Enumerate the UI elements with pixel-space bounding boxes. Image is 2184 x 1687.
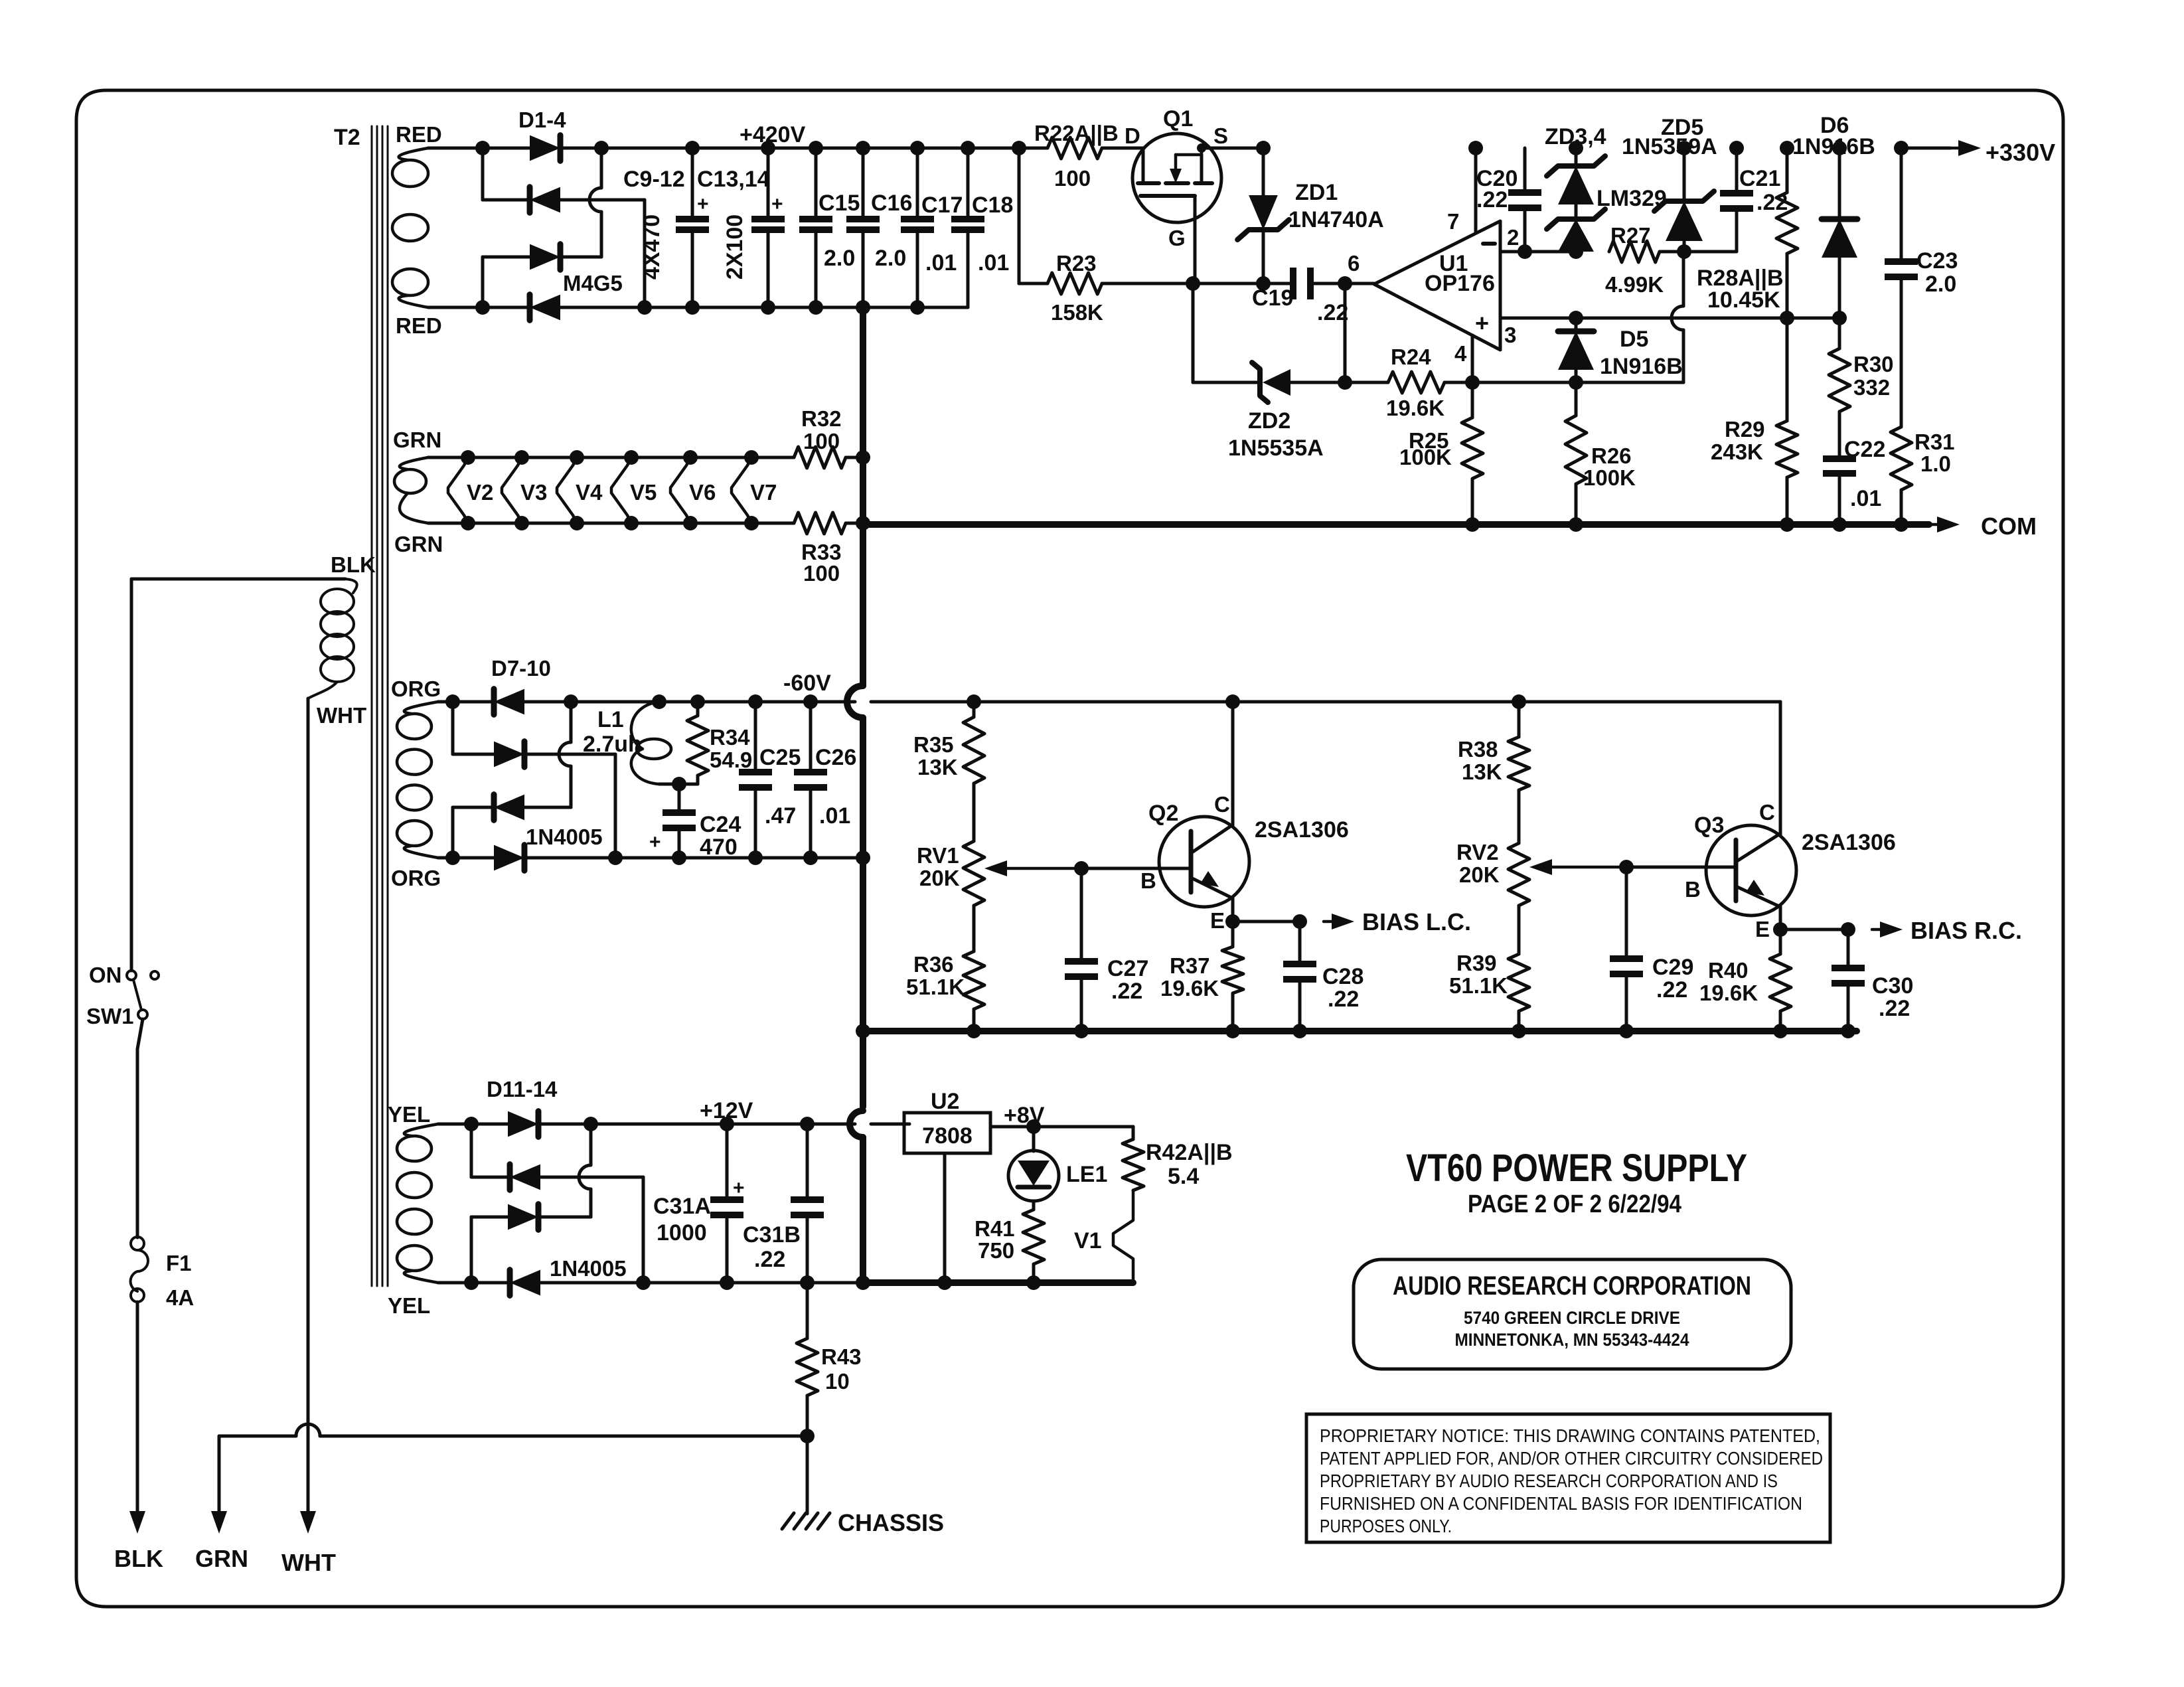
svg-text:R29: R29 bbox=[1725, 417, 1765, 442]
svg-text:C25: C25 bbox=[759, 745, 801, 770]
node junction bbox=[1569, 311, 1583, 325]
op-amp U1 OP176 bbox=[1374, 209, 1519, 366]
svg-text:+: + bbox=[697, 193, 709, 215]
label pin 6 bbox=[1348, 251, 1360, 276]
wire U1 pin7 to rail bbox=[1474, 148, 1478, 233]
node junction bbox=[748, 694, 763, 709]
wire -60V bottom rail bbox=[524, 856, 863, 860]
wire ORG top lead bbox=[438, 700, 453, 704]
wire +12V ground rail thick bbox=[856, 1275, 1133, 1290]
label 1N4005 bbox=[550, 1256, 627, 1281]
capacitor C28 .22 bbox=[1283, 922, 1364, 1038]
svg-text:.22: .22 bbox=[1111, 979, 1142, 1004]
svg-text:3: 3 bbox=[1504, 323, 1516, 347]
wire -60V rail bbox=[571, 700, 974, 704]
svg-text:C: C bbox=[1759, 800, 1775, 825]
capacitor C24 470 bbox=[649, 784, 741, 865]
resistor R31 1.0 bbox=[1891, 427, 1955, 532]
resistor R23 158K bbox=[1019, 251, 1193, 325]
node junction bbox=[475, 141, 490, 155]
svg-text:C15: C15 bbox=[819, 191, 860, 216]
node junction bbox=[1225, 914, 1240, 929]
svg-text:BIAS R.C.: BIAS R.C. bbox=[1911, 917, 2022, 944]
capacitor C25 .47 bbox=[739, 702, 801, 865]
wire AC2 to D3 bbox=[483, 256, 530, 259]
label GRN bottom bbox=[394, 532, 443, 556]
capacitor C9-12 4X470 bbox=[623, 148, 709, 315]
heater V2 bbox=[448, 450, 522, 530]
net WHT bbox=[281, 1511, 336, 1576]
svg-text:2.0: 2.0 bbox=[824, 246, 855, 271]
diode D14 bbox=[471, 1270, 540, 1296]
wire COM bottom rail bbox=[645, 306, 968, 309]
svg-text:1N4005: 1N4005 bbox=[550, 1256, 627, 1281]
svg-text:BIAS L.C.: BIAS L.C. bbox=[1362, 908, 1471, 935]
diode D7 bbox=[453, 689, 524, 715]
svg-text:GRN: GRN bbox=[393, 428, 441, 452]
svg-text:R24: R24 bbox=[1391, 345, 1431, 369]
node junction bbox=[1074, 861, 1089, 876]
wire ZD2 to pin6 bbox=[1344, 283, 1347, 382]
svg-text:FURNISHED ON A CONFIDENTAL BAS: FURNISHED ON A CONFIDENTAL BASIS FOR IDE… bbox=[1320, 1493, 1802, 1514]
node junction bbox=[1186, 276, 1200, 291]
svg-text:C9-12: C9-12 bbox=[623, 167, 685, 192]
svg-text:WHT: WHT bbox=[281, 1549, 336, 1576]
svg-text:158K: 158K bbox=[1051, 300, 1103, 325]
resistor R40 19.6K bbox=[1699, 929, 1791, 1038]
node junction bbox=[445, 850, 460, 865]
svg-text:13K: 13K bbox=[1462, 760, 1502, 784]
transformer T2 core bbox=[334, 125, 388, 1286]
resistor R36 51.1K bbox=[906, 906, 984, 1038]
svg-text:1N916B: 1N916B bbox=[1600, 354, 1683, 379]
label RED bottom bbox=[396, 313, 442, 338]
resistor R25 100K bbox=[1399, 382, 1483, 532]
svg-text:2: 2 bbox=[1507, 225, 1519, 250]
wire bias node row bbox=[1472, 381, 1576, 384]
svg-text:51.1K: 51.1K bbox=[1449, 973, 1508, 998]
svg-text:1N5359A: 1N5359A bbox=[1622, 134, 1717, 159]
capacitor C29 .22 bbox=[1610, 867, 1693, 1038]
svg-text:13K: 13K bbox=[917, 755, 958, 779]
svg-text:ON: ON bbox=[89, 963, 122, 987]
svg-text:OP176: OP176 bbox=[1425, 271, 1495, 296]
proprietary notice box bbox=[1306, 1414, 1830, 1542]
label GRN top bbox=[393, 428, 441, 452]
subtitle PAGE 2 OF 2 6/22/94 bbox=[1468, 1190, 1681, 1218]
wire D2 anode bbox=[560, 199, 645, 202]
svg-text:WHT: WHT bbox=[317, 703, 366, 728]
svg-text:PROPRIETARY NOTICE: THIS DRA: PROPRIETARY NOTICE: THIS DRAWING CONTAIN… bbox=[1320, 1425, 1820, 1446]
net BLK bbox=[114, 1511, 163, 1572]
svg-text:2SA1306: 2SA1306 bbox=[1802, 830, 1896, 855]
svg-text:V5: V5 bbox=[630, 480, 657, 505]
wire -60V rail right bbox=[974, 700, 1780, 704]
node junction bbox=[856, 141, 870, 155]
node junction bbox=[1569, 141, 1583, 155]
node junction bbox=[967, 694, 981, 709]
label WHT top bbox=[317, 703, 366, 728]
wire bus hop at +12V rail bbox=[850, 1111, 863, 1137]
svg-text:R32: R32 bbox=[801, 406, 842, 431]
node junction bbox=[800, 1117, 815, 1131]
svg-text:V7: V7 bbox=[750, 480, 777, 505]
capacitor C15 2.0 bbox=[799, 148, 860, 315]
heater V7 bbox=[732, 450, 777, 530]
node junction bbox=[464, 1117, 479, 1131]
capacitor C20 .22 bbox=[1476, 148, 1541, 252]
svg-text:2.7uh: 2.7uh bbox=[583, 732, 642, 757]
capacitor C16 2.0 bbox=[846, 148, 912, 315]
diode D12 bbox=[510, 1165, 540, 1190]
svg-text:F1: F1 bbox=[166, 1251, 192, 1275]
label ORG top bbox=[391, 677, 441, 701]
svg-text:GRN: GRN bbox=[195, 1545, 248, 1572]
node junction bbox=[800, 1429, 815, 1443]
svg-text:5740 GREEN CIRCLE DRIVE: 5740 GREEN CIRCLE DRIVE bbox=[1464, 1308, 1680, 1328]
wire AC2 riser bbox=[451, 807, 455, 858]
svg-text:R30: R30 bbox=[1853, 352, 1894, 376]
label YEL top bbox=[388, 1102, 430, 1127]
node junction bbox=[475, 300, 490, 315]
capacitor C31B .22 bbox=[743, 1124, 824, 1290]
svg-text:V2: V2 bbox=[467, 480, 493, 505]
node junction bbox=[1677, 244, 1691, 259]
wire AC2 riser bbox=[481, 257, 485, 307]
svg-text:T2: T2 bbox=[334, 125, 360, 150]
diode D13 bbox=[508, 1204, 538, 1230]
svg-text:R42A||B: R42A||B bbox=[1146, 1140, 1233, 1165]
svg-text:C30: C30 bbox=[1872, 973, 1913, 999]
svg-text:.22: .22 bbox=[1879, 996, 1910, 1021]
svg-text:G: G bbox=[1168, 226, 1186, 250]
resistor R39 51.1K bbox=[1449, 906, 1529, 1038]
resistor R34 54.9 bbox=[687, 702, 752, 784]
node junction bbox=[1225, 694, 1240, 709]
node junction bbox=[464, 1275, 479, 1290]
svg-text:4.99K: 4.99K bbox=[1605, 272, 1664, 297]
node junction bbox=[564, 694, 578, 709]
wire bus hop at -60V rail bbox=[847, 686, 863, 718]
svg-text:54.9: 54.9 bbox=[710, 748, 752, 772]
svg-text:20K: 20K bbox=[919, 866, 960, 890]
wire ORG bottom lead bbox=[438, 856, 453, 860]
svg-text:.22: .22 bbox=[1476, 187, 1508, 212]
wire AC2 to D9 bbox=[453, 806, 494, 809]
svg-text:R23: R23 bbox=[1056, 251, 1097, 276]
svg-text:PAGE 2 OF 2 6/22/94: PAGE 2 OF 2 6/22/94 bbox=[1468, 1190, 1681, 1218]
transformer T2 secondary winding GRN bbox=[394, 457, 428, 523]
label 1N4005 bbox=[526, 825, 603, 849]
svg-text:.22: .22 bbox=[754, 1247, 785, 1272]
wire gate node drop bbox=[1192, 283, 1195, 382]
capacitor C17 .01 bbox=[901, 148, 963, 315]
wire chassis row bbox=[219, 1424, 807, 1436]
node junction bbox=[1832, 311, 1847, 325]
potentiometer RV2 20K bbox=[1456, 790, 1626, 906]
svg-text:R22A||B: R22A||B bbox=[1034, 121, 1119, 145]
svg-text:ORG: ORG bbox=[391, 866, 441, 890]
node junction bbox=[1569, 375, 1583, 390]
net GRN bbox=[195, 1511, 248, 1572]
node junction bbox=[445, 694, 460, 709]
svg-text:51.1K: 51.1K bbox=[906, 975, 965, 999]
wire D3 cathode bbox=[560, 256, 601, 259]
diode D11 bbox=[471, 1111, 538, 1137]
wire AC1 to D12 bbox=[471, 1176, 510, 1179]
svg-text:+330V: +330V bbox=[1986, 139, 2055, 166]
capacitor C13,14 2X100 bbox=[697, 148, 785, 315]
node junction bbox=[608, 850, 623, 865]
zener diode ZD3 LM329 bbox=[1547, 148, 1605, 204]
svg-text:YEL: YEL bbox=[388, 1293, 430, 1318]
svg-text:CHASSIS: CHASSIS bbox=[838, 1509, 944, 1536]
node junction bbox=[1338, 375, 1352, 390]
capacitor C30 .22 bbox=[1832, 929, 1913, 1038]
svg-text:LE1: LE1 bbox=[1066, 1162, 1107, 1187]
node junction bbox=[1619, 860, 1634, 874]
svg-text:1N5535A: 1N5535A bbox=[1228, 436, 1324, 461]
wire +12V bottom rail bbox=[540, 1281, 863, 1285]
wire Q3 emitter bbox=[1773, 906, 1788, 937]
wire F1 to BLK arrow bbox=[136, 1302, 139, 1511]
svg-text:U2: U2 bbox=[931, 1089, 959, 1114]
svg-text:R27: R27 bbox=[1610, 223, 1651, 248]
wire COM rail bbox=[863, 521, 1929, 528]
svg-text:19.6K: 19.6K bbox=[1699, 981, 1758, 1005]
wire D9 anode bbox=[524, 806, 571, 809]
wire AC2 to D13 bbox=[471, 1216, 508, 1219]
svg-text:R36: R36 bbox=[913, 952, 954, 977]
svg-text:2X100: 2X100 bbox=[722, 214, 747, 280]
svg-text:.47: .47 bbox=[765, 803, 796, 829]
diode D8 bbox=[494, 742, 524, 767]
resistor R33 100 bbox=[751, 513, 870, 586]
svg-text:1N4740A: 1N4740A bbox=[1288, 207, 1384, 232]
svg-text:D1-4: D1-4 bbox=[518, 108, 566, 132]
label YEL bottom bbox=[388, 1293, 430, 1318]
transformer T2 primary winding BLK-WHT bbox=[308, 579, 357, 698]
node junction bbox=[1338, 276, 1352, 291]
wire +420V rail bbox=[601, 147, 1019, 150]
resistor R27 4.99K bbox=[1605, 223, 1684, 297]
diode D1 bbox=[483, 135, 560, 161]
node junction bbox=[761, 141, 775, 155]
resistor R38 13K bbox=[1458, 702, 1529, 790]
transistor Q2 2SA1306 bbox=[1140, 792, 1349, 933]
svg-text:RED: RED bbox=[396, 122, 442, 147]
node junction bbox=[1026, 1119, 1041, 1134]
svg-text:+: + bbox=[649, 831, 661, 853]
fuse F1 4A bbox=[131, 1237, 195, 1310]
svg-text:V4: V4 bbox=[576, 480, 603, 505]
svg-text:C31B: C31B bbox=[743, 1222, 801, 1247]
net BIAS R.C. bbox=[1872, 917, 2022, 944]
node junction bbox=[961, 141, 975, 155]
heater V3 bbox=[502, 450, 577, 530]
svg-text:VT60 POWER SUPPLY: VT60 POWER SUPPLY bbox=[1406, 1147, 1747, 1190]
svg-text:R40: R40 bbox=[1708, 958, 1749, 983]
svg-text:COM: COM bbox=[1981, 513, 2037, 540]
switch SW1 bbox=[86, 971, 159, 1028]
svg-text:1N4005: 1N4005 bbox=[526, 825, 603, 849]
resistor R26 100K bbox=[1565, 382, 1636, 532]
node junction bbox=[910, 141, 925, 155]
capacitor C27 .22 bbox=[1065, 868, 1148, 1038]
wire U1 pin2 bbox=[1500, 250, 1576, 254]
wire AC1 drop bbox=[470, 1124, 473, 1177]
svg-text:C: C bbox=[1214, 792, 1230, 817]
inductor L1 2.7uh bbox=[583, 702, 671, 784]
capacitor C18 .01 bbox=[951, 148, 1013, 307]
wire D7 anode to rail bbox=[524, 700, 571, 704]
wire R23 left riser bbox=[1018, 148, 1021, 283]
node junction bbox=[1012, 141, 1026, 155]
wire Q1 gate lead bbox=[1194, 196, 1197, 283]
node junction bbox=[1465, 375, 1480, 390]
wire RV1 wiper to Q2 base bbox=[1081, 867, 1191, 870]
wire AC1 to D8 bbox=[453, 753, 494, 756]
wire +12V rail bbox=[591, 1123, 909, 1126]
wire D11 cathode to rail bbox=[538, 1123, 591, 1126]
node junction bbox=[1841, 922, 1855, 937]
node junction bbox=[1292, 914, 1307, 929]
svg-text:C27: C27 bbox=[1107, 956, 1148, 981]
node junction bbox=[584, 1117, 598, 1131]
voltage regulator U2 7808 bbox=[904, 1089, 990, 1153]
svg-text:C28: C28 bbox=[1322, 964, 1364, 989]
svg-text:10: 10 bbox=[825, 1369, 850, 1394]
wire RV2 wiper to Q3 base bbox=[1626, 866, 1736, 869]
transistor Q3 2SA1306 bbox=[1685, 800, 1896, 941]
wire SW1 to F1 bbox=[137, 1019, 143, 1238]
label BLK top bbox=[331, 552, 376, 577]
resistor R41 750 bbox=[975, 1210, 1044, 1290]
diode D9 bbox=[494, 795, 524, 821]
wire D8 cathode bbox=[524, 753, 615, 756]
svg-text:+: + bbox=[771, 193, 783, 215]
svg-text:.01: .01 bbox=[1850, 486, 1881, 511]
svg-text:S: S bbox=[1213, 123, 1228, 148]
svg-text:R43: R43 bbox=[821, 1344, 862, 1369]
svg-text:1000: 1000 bbox=[657, 1220, 707, 1245]
wire D9 anode riser bbox=[559, 702, 571, 807]
potentiometer RV1 20K bbox=[917, 783, 1081, 906]
svg-text:19.6K: 19.6K bbox=[1386, 396, 1444, 420]
heater V6 bbox=[670, 450, 751, 530]
svg-text:4X470: 4X470 bbox=[639, 214, 664, 280]
svg-text:7: 7 bbox=[1447, 209, 1459, 234]
svg-text:YEL: YEL bbox=[388, 1102, 430, 1127]
transistor Q1 MOSFET bbox=[1132, 106, 1221, 250]
svg-text:100K: 100K bbox=[1583, 465, 1636, 490]
resistor R43 10 bbox=[797, 1283, 862, 1436]
node junction bbox=[1518, 244, 1532, 259]
svg-text:L1: L1 bbox=[597, 707, 624, 732]
svg-text:10.45K: 10.45K bbox=[1707, 287, 1780, 313]
resistor R28A||B 10.45K bbox=[1697, 141, 1798, 318]
svg-text:.01: .01 bbox=[978, 250, 1009, 276]
svg-text:RV1: RV1 bbox=[917, 843, 959, 868]
capacitor C31A 1000 bbox=[653, 1124, 745, 1290]
LED LE1 bbox=[1008, 1127, 1107, 1210]
diode D3 bbox=[530, 244, 560, 270]
svg-text:C26: C26 bbox=[815, 745, 856, 770]
svg-text:R38: R38 bbox=[1458, 737, 1498, 762]
resistor R24 19.6K bbox=[1345, 345, 1472, 420]
wire D3 cathode riser bbox=[589, 148, 601, 257]
capacitor C19 .22 bbox=[1193, 268, 1374, 325]
transformer T2 secondary winding ORG bbox=[397, 702, 438, 858]
wire R22 to Q1 drain bbox=[1102, 147, 1143, 150]
wire WHT drop bbox=[307, 698, 310, 1511]
wire U2 ground bbox=[937, 1153, 952, 1290]
capacitor C21 .22 bbox=[1684, 141, 1788, 252]
transformer T2 secondary winding YEL bbox=[397, 1124, 438, 1283]
node junction bbox=[1512, 694, 1526, 709]
wire emitter row bbox=[1233, 920, 1300, 924]
resistor R30 332 bbox=[1829, 318, 1894, 459]
resistor R22A||B 100 bbox=[1019, 121, 1119, 191]
zener diode ZD2 1N5535A bbox=[1193, 362, 1345, 461]
node junction bbox=[1468, 141, 1483, 155]
svg-text:ZD2: ZD2 bbox=[1248, 408, 1290, 434]
svg-text:5.4: 5.4 bbox=[1168, 1164, 1199, 1189]
svg-text:C17: C17 bbox=[921, 193, 963, 218]
svg-text:E: E bbox=[1210, 908, 1225, 933]
svg-text:C19: C19 bbox=[1252, 285, 1293, 311]
svg-text:4: 4 bbox=[1454, 341, 1467, 366]
wire D12 anode bbox=[540, 1176, 643, 1179]
node junction bbox=[720, 1117, 734, 1131]
svg-text:Q1: Q1 bbox=[1163, 106, 1193, 131]
node junction bbox=[803, 694, 818, 709]
svg-text:C18: C18 bbox=[972, 193, 1013, 218]
svg-text:V3: V3 bbox=[520, 480, 547, 505]
svg-text:4A: 4A bbox=[166, 1285, 194, 1310]
wire D1 cathode to rail bbox=[560, 147, 601, 150]
svg-text:1N916B: 1N916B bbox=[1792, 134, 1875, 159]
svg-text:332: 332 bbox=[1853, 375, 1890, 400]
wire YEL top lead bbox=[438, 1123, 471, 1126]
wire D2 anode drop bbox=[643, 200, 647, 307]
wire AC2 riser bbox=[470, 1217, 473, 1283]
wire Q2 collector bbox=[1231, 702, 1235, 827]
svg-text:100K: 100K bbox=[1399, 445, 1452, 469]
node junction bbox=[637, 300, 652, 315]
svg-text:C22: C22 bbox=[1844, 437, 1885, 462]
zener diode ZD1 1N4740A bbox=[1237, 141, 1383, 291]
svg-text:2.0: 2.0 bbox=[875, 246, 906, 271]
node junction bbox=[636, 1275, 651, 1290]
heater V1 bbox=[1074, 1190, 1133, 1283]
heater V4 bbox=[557, 450, 631, 530]
resistor R37 19.6K bbox=[1160, 922, 1243, 1038]
svg-text:ZD3,4: ZD3,4 bbox=[1545, 124, 1606, 149]
wire D13 cathode riser bbox=[579, 1124, 591, 1217]
node junction bbox=[1780, 311, 1794, 325]
wire -60V to Q3 collector bbox=[1766, 702, 1780, 835]
svg-text:470: 470 bbox=[700, 835, 738, 860]
node junction bbox=[652, 694, 666, 709]
transformer T2 secondary winding RED bbox=[392, 148, 428, 307]
svg-text:R35: R35 bbox=[913, 732, 954, 757]
svg-text:100: 100 bbox=[1054, 166, 1091, 191]
label M4G5 bbox=[563, 271, 623, 295]
svg-text:+: + bbox=[1475, 309, 1489, 337]
node junction bbox=[672, 777, 686, 791]
node junction bbox=[594, 141, 609, 155]
